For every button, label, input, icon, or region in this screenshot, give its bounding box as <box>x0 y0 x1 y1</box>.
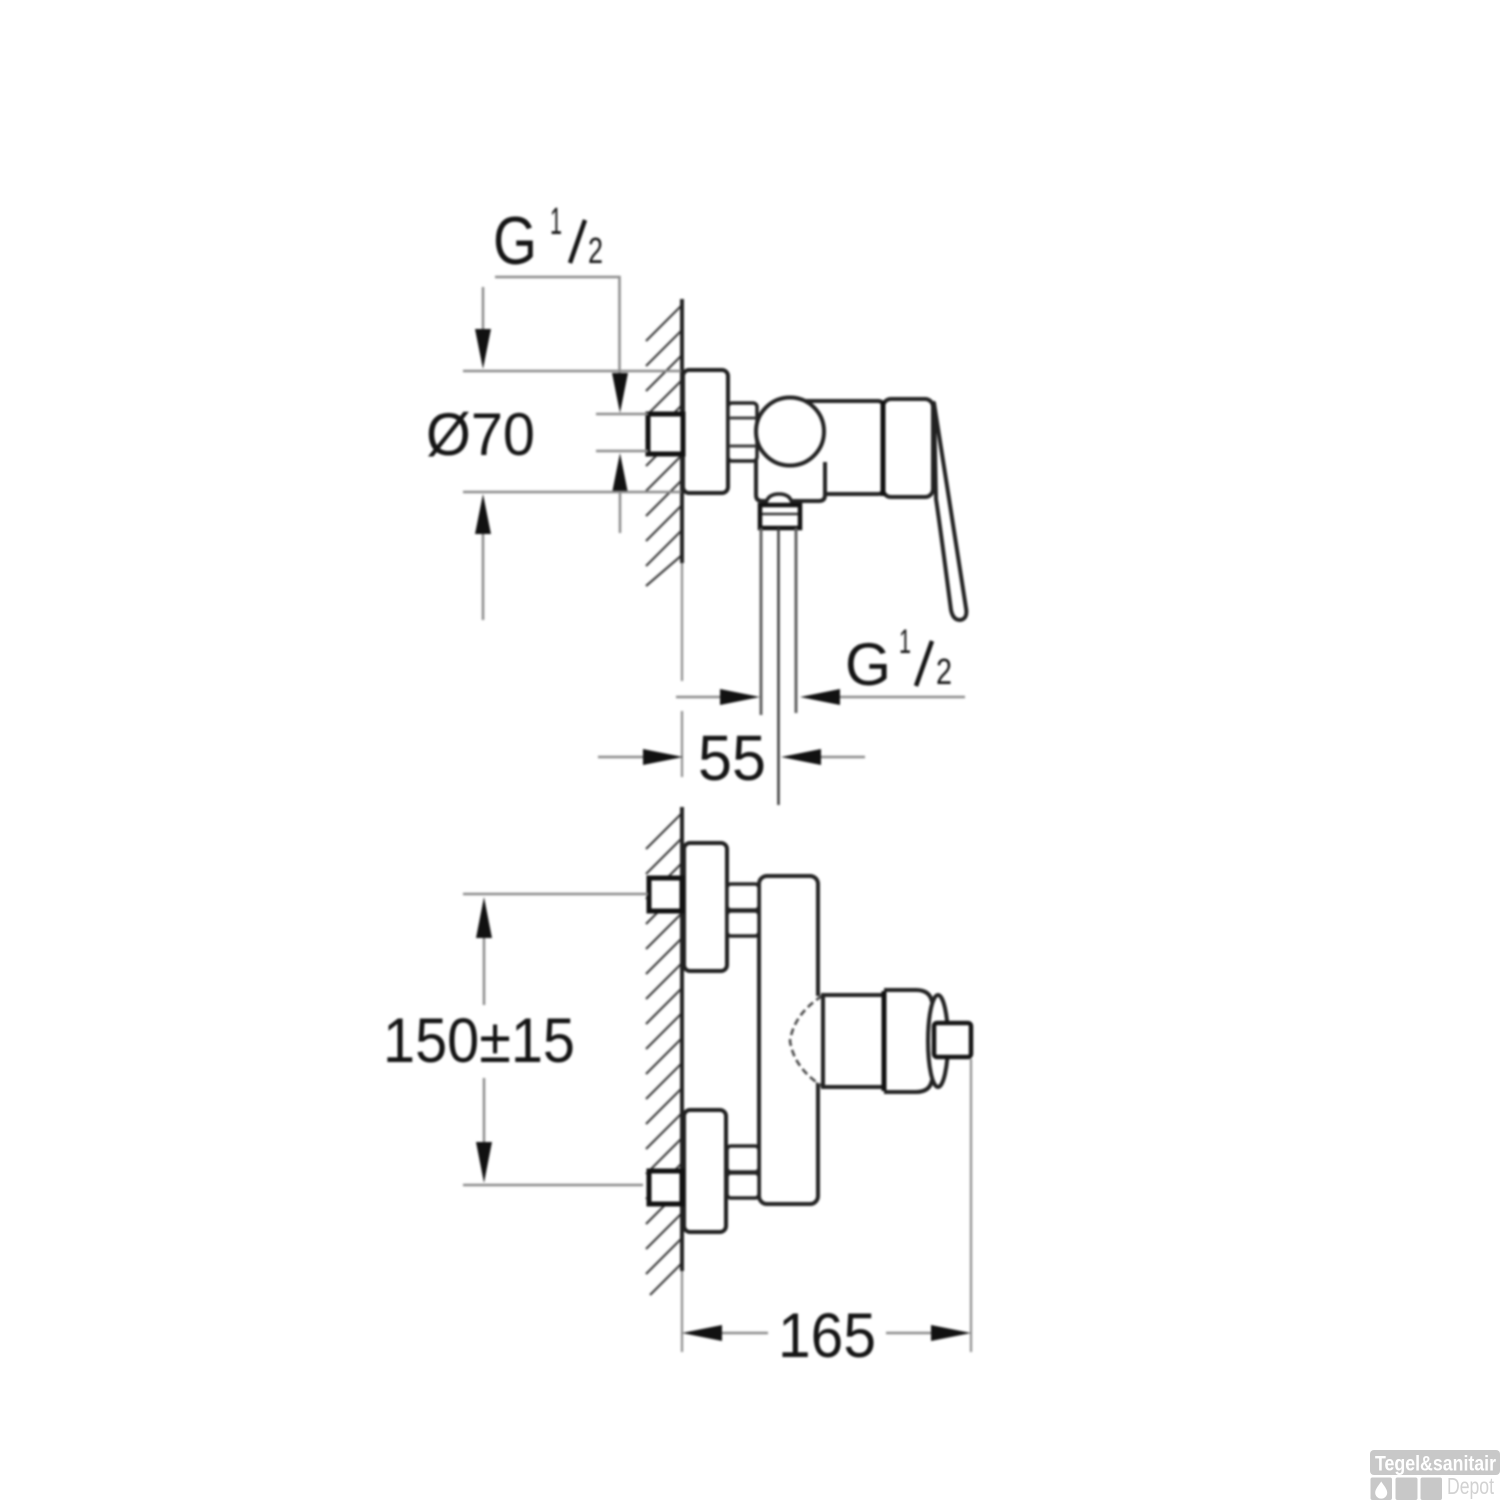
grip / cartridge cap <box>883 399 933 497</box>
svg-text:1: 1 <box>899 623 911 661</box>
logo square 3 <box>1421 1478 1443 1500</box>
upper flange escutcheon (front) <box>684 843 727 971</box>
svg-text:55: 55 <box>698 722 766 794</box>
Ø70 dimension legs and arrows <box>482 287 485 329</box>
dimension pipe thread G1/2 <box>676 696 720 699</box>
label G 1/2 (top) <box>493 201 603 279</box>
shower outlet nut <box>760 505 800 528</box>
dimension 165 <box>682 1325 722 1341</box>
svg-text:165: 165 <box>778 1301 876 1371</box>
lower nut behind wall <box>649 1171 682 1204</box>
svg-text:Ø70: Ø70 <box>426 401 535 468</box>
lower flange escutcheon (front) <box>684 1110 726 1232</box>
outlet tube <box>823 995 884 1087</box>
svg-text:150±15: 150±15 <box>383 1006 575 1076</box>
wall face line (top) <box>680 299 684 563</box>
dimension 150±15 extension lines <box>463 893 648 896</box>
upper hex union <box>727 884 759 910</box>
wall hatching (bottom) <box>646 813 682 1295</box>
outlet pipe lines <box>760 528 763 715</box>
ball joint <box>756 398 824 466</box>
dimension 150±15 line and arrows <box>476 897 492 938</box>
upper nut behind wall <box>649 878 682 911</box>
logo square 1 with drop <box>1371 1478 1393 1500</box>
leader G1/2 top <box>495 277 620 373</box>
wall extension to 165 dim <box>681 1271 683 1352</box>
arrow down to nipple top <box>612 373 628 413</box>
nipple extension lines <box>596 413 648 416</box>
barrel (mixer body horizontal) <box>800 401 883 494</box>
logo square 2 <box>1396 1478 1418 1500</box>
inlet nipple behind wall <box>648 414 683 454</box>
svg-text:2: 2 <box>588 230 603 271</box>
lower hex union <box>727 1146 759 1172</box>
wall hatching (top) <box>646 305 682 586</box>
outlet dome <box>766 494 792 503</box>
wall extension line below (top) <box>681 563 683 681</box>
svg-text:Depot: Depot <box>1447 1473 1494 1499</box>
mixer body (front) <box>759 876 818 1204</box>
erase body right edge at outlet <box>812 996 826 1082</box>
svg-text:G: G <box>493 203 537 279</box>
knob <box>934 1023 971 1057</box>
flange escutcheon (top view) <box>683 370 728 493</box>
label G 1/2 (bottom of top drawing) <box>845 623 952 698</box>
cap left edge <box>882 991 887 1091</box>
dimension 55 <box>598 756 643 759</box>
svg-text:G: G <box>845 631 891 698</box>
outlet cap <box>884 990 932 1092</box>
outlet body below ball <box>756 458 825 501</box>
outlet cone chevron (hidden edge, dashed) <box>790 996 822 1086</box>
cap lens <box>928 995 948 1087</box>
Ø70 extension lines <box>463 370 681 373</box>
knob extension line <box>970 1059 972 1352</box>
lever handle <box>934 403 966 620</box>
arrow up to nipple bottom <box>612 453 628 493</box>
logo banner <box>1370 1450 1500 1475</box>
svg-text:2: 2 <box>936 651 952 692</box>
pipe center extension line <box>777 528 780 805</box>
hex union nut (top view) <box>728 403 757 461</box>
wall face line (bottom) <box>680 807 684 1271</box>
svg-text:1: 1 <box>550 201 562 243</box>
